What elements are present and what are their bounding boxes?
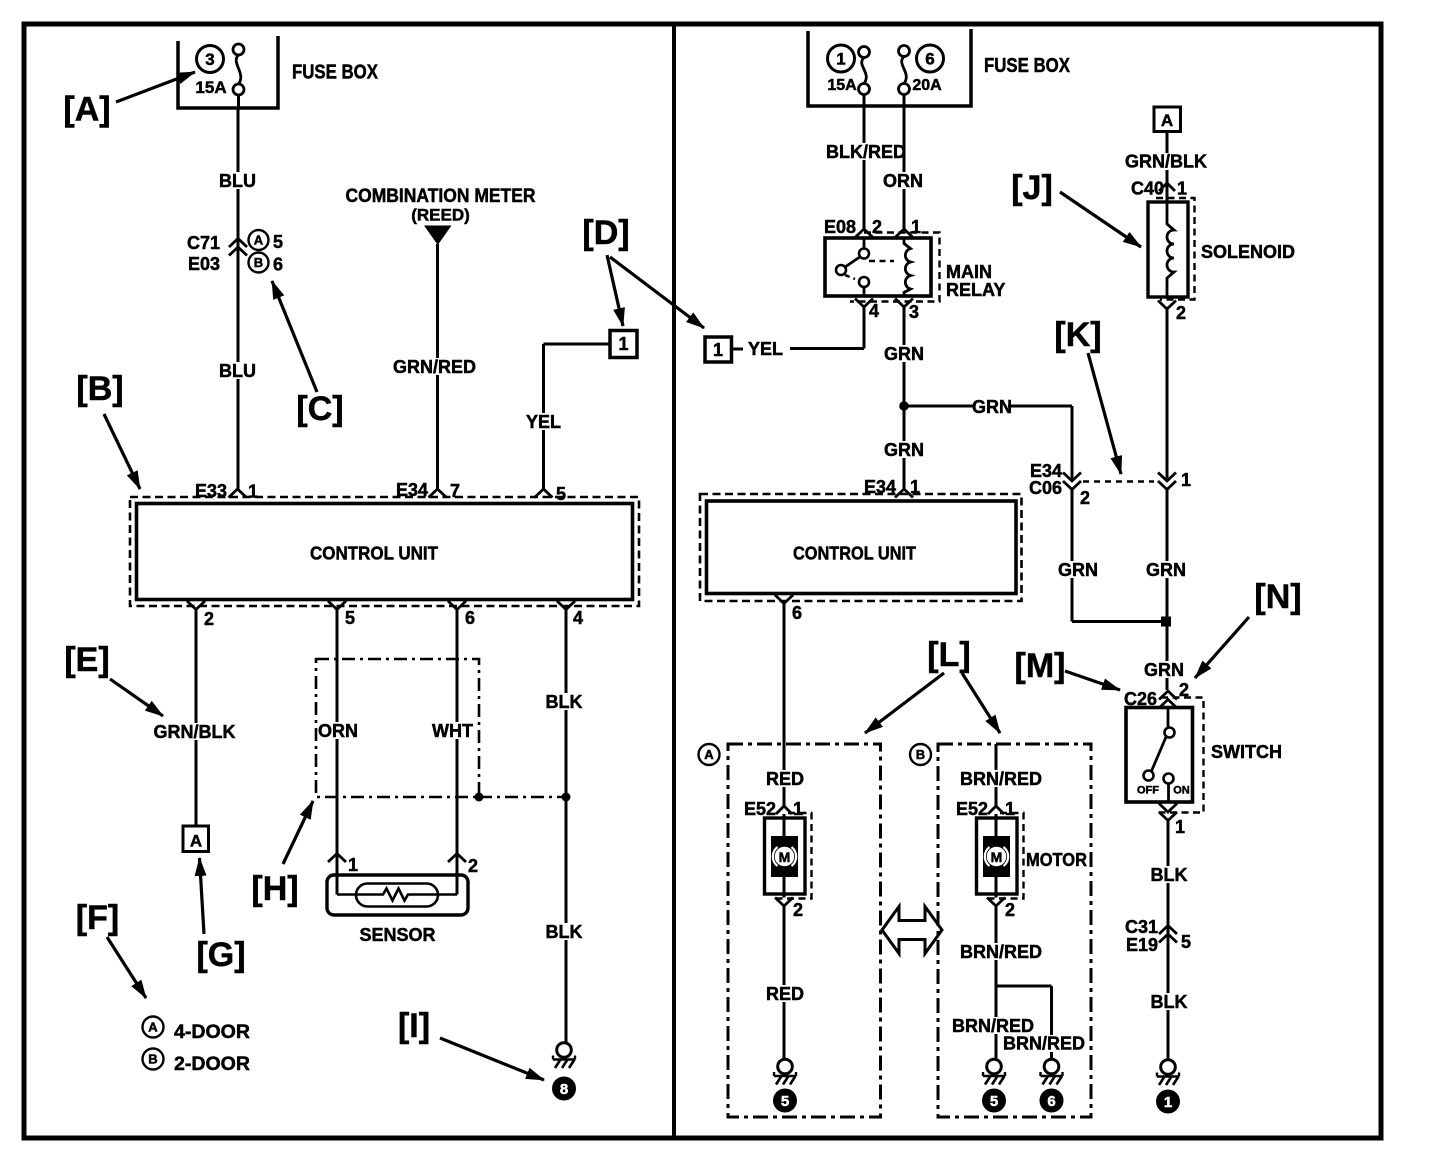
fuse box (left) [178, 36, 278, 108]
wire BRN/RED motor B down [995, 906, 998, 1059]
wire label GRN/BLK [157, 723, 232, 740]
svg-text:1: 1 [911, 217, 921, 237]
shield dash-dot box [H] [316, 659, 479, 797]
svg-text:C31: C31 [1125, 917, 1158, 937]
svg-text:[E]: [E] [64, 641, 109, 679]
svg-text:BLK/RED: BLK/RED [826, 142, 906, 162]
svg-text:1: 1 [1164, 1094, 1172, 1111]
wire label GRN on branch [975, 398, 1008, 415]
variant box A dash-dot [728, 744, 881, 1117]
wire GRN relay pin3 down [903, 307, 906, 489]
arrow [J] to solenoid [1060, 192, 1141, 247]
wire branch down to connector C06 [1071, 406, 1074, 481]
motor A pin E52-1 [776, 806, 792, 814]
wire YEL node1 to control unit pin 5 [544, 343, 611, 346]
wire YEL node1 to relay pin4 [732, 348, 744, 351]
arrow [G] to node A [200, 858, 205, 934]
svg-text:[J]: [J] [1011, 169, 1053, 207]
svg-text:1: 1 [1177, 179, 1187, 199]
panel divider [672, 24, 676, 1138]
pin 6 terminal (right CU) [775, 595, 793, 604]
svg-text:6: 6 [925, 50, 934, 69]
svg-text:[C]: [C] [296, 390, 343, 428]
wire label ORN [886, 172, 919, 189]
svg-text:M: M [991, 849, 1003, 865]
svg-text:RELAY: RELAY [946, 280, 1005, 300]
wire relay pin4 stub [863, 307, 866, 349]
combination meter triangle symbol [424, 226, 452, 246]
svg-text:1: 1 [1175, 817, 1185, 837]
svg-text:BLK: BLK [1151, 992, 1188, 1012]
svg-text:COMBINATION METER: COMBINATION METER [346, 186, 536, 207]
wire GRN/RED meter to control unit pin E34-7 [436, 244, 439, 489]
solenoid coil [1167, 202, 1174, 297]
pin 5 terminal (bottom) [328, 601, 346, 610]
wire BLU fuse3 to control unit pin E33-1 [237, 95, 240, 110]
svg-text:RED: RED [766, 769, 804, 789]
motor B symbol [983, 836, 1010, 877]
wire label RED lower [768, 985, 801, 1002]
svg-text:YEL: YEL [526, 412, 561, 432]
svg-text:[F]: [F] [76, 899, 119, 937]
svg-text:[A]: [A] [63, 91, 110, 129]
control unit (right) solid box [707, 501, 1017, 594]
wire label GRN (solenoid branch) [1149, 561, 1182, 578]
svg-text:1: 1 [1005, 799, 1015, 819]
motor A symbol [771, 836, 798, 877]
svg-text:A: A [148, 1020, 158, 1035]
pin 5 terminal (top) [535, 489, 553, 498]
wire label WHT [436, 722, 469, 739]
svg-text:SOLENOID: SOLENOID [1201, 242, 1295, 262]
svg-text:WHT: WHT [432, 721, 473, 741]
fuse box (right) [808, 29, 971, 106]
fuse 3 circled number [197, 46, 224, 73]
pin 4 terminal (bottom) [557, 601, 575, 610]
wire label BRN/RED middle [963, 943, 1038, 960]
svg-text:BRN/RED: BRN/RED [1003, 1034, 1085, 1054]
circled A with pin 5 (C71 side) [249, 230, 269, 250]
svg-text:5: 5 [273, 232, 283, 252]
svg-text:1: 1 [836, 50, 845, 69]
wire label GRN (C06 branch) [1061, 561, 1094, 578]
svg-text:GRN/RED: GRN/RED [393, 357, 476, 377]
svg-text:E52: E52 [956, 799, 988, 819]
arrow [B] to control unit corner [104, 414, 140, 489]
svg-text:5: 5 [1181, 932, 1191, 952]
svg-text:1: 1 [248, 482, 258, 502]
dash-dot link to BLK wire [479, 796, 566, 799]
svg-text:ORN: ORN [318, 721, 358, 741]
svg-text:GRN: GRN [1146, 560, 1186, 580]
svg-text:E19: E19 [1126, 935, 1158, 955]
svg-text:B: B [916, 747, 925, 762]
svg-text:1: 1 [713, 340, 723, 360]
arrow [E] to GRN/BLK [110, 679, 163, 716]
svg-text:BLK: BLK [1151, 865, 1188, 885]
svg-text:GRN: GRN [884, 344, 924, 364]
svg-text:MAIN: MAIN [946, 262, 992, 282]
svg-text:C40: C40 [1131, 179, 1164, 199]
svg-text:[H]: [H] [251, 870, 298, 908]
wire BLK/RED fuse1 to relay pin2 [863, 95, 866, 230]
motor B pin E52-1 [988, 806, 1004, 814]
svg-text:GRN: GRN [972, 397, 1012, 417]
arrow [D] to left node 1 [607, 255, 623, 326]
svg-text:GRN: GRN [1058, 560, 1098, 580]
pin E34-7 terminal [429, 489, 447, 498]
connector 1 on solenoid wire [1158, 481, 1176, 490]
arrow [I] to ground 8 [440, 1038, 544, 1080]
switch box [1126, 708, 1193, 803]
svg-text:5: 5 [990, 1093, 998, 1110]
wire BLK switch to ground 1 [1167, 821, 1170, 1061]
arrow [N] to C26 pin 2 [1195, 617, 1249, 678]
wire GRN/BLK pin2 to node A [195, 610, 198, 827]
junction dot GRN branch [899, 401, 909, 411]
svg-text:2: 2 [1176, 303, 1186, 323]
svg-text:1: 1 [1181, 470, 1191, 490]
svg-text:4: 4 [869, 301, 879, 321]
svg-text:[K]: [K] [1054, 316, 1101, 354]
arrow [H] to box corner [283, 801, 313, 864]
pin 2 terminal (bottom) [187, 601, 205, 610]
ground symbol 1 [1161, 1060, 1176, 1075]
branch wire to ground 6 [996, 985, 1052, 988]
svg-text:[M]: [M] [1015, 647, 1066, 685]
wire label YEL [527, 413, 560, 430]
junction dot at solenoid wire [1161, 617, 1171, 627]
elbow to solenoid wire [1072, 620, 1166, 623]
svg-text:2-DOOR: 2-DOOR [174, 1054, 250, 1075]
svg-text:[I]: [I] [398, 1007, 430, 1045]
wire label BLK upper [547, 693, 580, 710]
legend circled A = 4-DOOR [143, 1017, 164, 1038]
connector C71/E03 on BLU wire [229, 239, 247, 248]
svg-text:BRN/RED: BRN/RED [960, 769, 1042, 789]
svg-text:CONTROL UNIT: CONTROL UNIT [310, 543, 439, 564]
svg-text:A: A [254, 233, 264, 248]
svg-text:BLU: BLU [219, 171, 256, 191]
node box 1 (right panel) [705, 337, 732, 362]
svg-text:FUSE BOX: FUSE BOX [292, 62, 379, 84]
circled A (variant) [699, 744, 720, 765]
svg-text:SWITCH: SWITCH [1211, 742, 1282, 762]
wire label BRN/RED top [963, 770, 1038, 787]
fuse 1 circled number [828, 45, 855, 72]
svg-text:6: 6 [1047, 1093, 1055, 1110]
arrow [L] to box A [865, 673, 944, 733]
svg-text:6: 6 [465, 608, 475, 628]
fuse 3 15A symbol [233, 44, 244, 55]
wire label GRN below relay [887, 345, 920, 362]
wire label GRN above E34-1 [887, 441, 920, 458]
svg-text:BLK: BLK [546, 922, 583, 942]
wire ORN fuse6 to relay pin1 [903, 95, 906, 230]
pin E33-1 terminal [229, 489, 247, 498]
arrow [F] to legend [107, 937, 146, 998]
fuse 6 circled number [917, 45, 944, 72]
svg-text:E52: E52 [744, 799, 776, 819]
arrow [K] to connector link [1088, 353, 1121, 474]
svg-text:E03: E03 [188, 254, 220, 274]
svg-text:YEL: YEL [748, 339, 783, 359]
control unit (right) dashed outline [700, 494, 1022, 601]
motor A box [765, 818, 806, 894]
wire WHT pin6 to sensor pin2 [456, 610, 459, 863]
arrow [M] to C26 [1065, 671, 1120, 690]
relay coil [904, 238, 911, 296]
wire label BRN/RED left [955, 1017, 1030, 1034]
motor A wire through [783, 814, 786, 838]
wire BLK pin4 to ground 8 [565, 610, 568, 1043]
motor B box [977, 818, 1018, 894]
motor B wire through [995, 814, 998, 838]
svg-text:1: 1 [793, 799, 803, 819]
svg-text:[B]: [B] [76, 370, 123, 408]
wire label RED upper [768, 770, 801, 787]
svg-text:4-DOOR: 4-DOOR [174, 1022, 250, 1043]
svg-text:GRN: GRN [884, 440, 924, 460]
switch pin 1 connector [1159, 812, 1177, 821]
svg-text:5: 5 [345, 608, 355, 628]
node box 1 (left panel) [610, 331, 637, 358]
svg-text:4: 4 [573, 608, 583, 628]
svg-text:3: 3 [205, 50, 214, 69]
wire GRN solenoid to connector 1 [1166, 309, 1169, 481]
svg-text:BLU: BLU [219, 361, 256, 381]
relay mech link dashes [869, 260, 894, 263]
svg-text:6: 6 [273, 255, 283, 275]
wire label BLK/RED [828, 143, 903, 160]
svg-text:M: M [779, 849, 791, 865]
svg-text:15A: 15A [195, 78, 226, 97]
wire label BLK lower [547, 923, 580, 940]
arrow [L] to box B [962, 673, 1000, 733]
svg-text:5: 5 [556, 484, 566, 504]
svg-text:A: A [1161, 111, 1173, 130]
fuse 6 symbol [899, 46, 910, 57]
svg-text:2: 2 [1080, 488, 1090, 508]
svg-text:[N]: [N] [1254, 578, 1301, 616]
svg-text:2: 2 [872, 217, 882, 237]
svg-text:8: 8 [560, 1081, 568, 1098]
relay switch arm [863, 238, 866, 249]
svg-text:(REED): (REED) [411, 206, 470, 225]
svg-text:E34: E34 [396, 480, 428, 500]
wire RED control unit to motor A [783, 604, 786, 807]
svg-text:BRN/RED: BRN/RED [960, 942, 1042, 962]
svg-text:C71: C71 [187, 233, 220, 253]
svg-text:GRN: GRN [1144, 660, 1184, 680]
svg-text:1: 1 [348, 855, 358, 875]
circled B (variant) [910, 744, 931, 765]
wire label ORN [321, 722, 354, 739]
solenoid dashed outline [1156, 198, 1195, 300]
connector C31/E19 5 [1159, 926, 1177, 935]
wire label BRN/RED right [1006, 1035, 1081, 1052]
svg-text:E08: E08 [824, 217, 856, 237]
arrow [A] to fuse 3 [116, 72, 195, 102]
wire label GRN/BLK (right) [1128, 153, 1203, 170]
svg-text:A: A [704, 747, 714, 762]
svg-text:2: 2 [468, 856, 478, 876]
connector C26-2 [1159, 691, 1177, 700]
svg-text:FUSE BOX: FUSE BOX [984, 55, 1071, 77]
wire label BLU lower [221, 362, 254, 379]
svg-text:3: 3 [909, 302, 919, 322]
svg-text:GRN/BLK: GRN/BLK [1125, 152, 1207, 172]
control unit (left) dashed outline [130, 497, 639, 606]
motor A dashed outline [775, 813, 812, 899]
connector E34/C06 2 [1063, 481, 1081, 490]
svg-text:CONTROL UNIT: CONTROL UNIT [793, 544, 916, 564]
svg-text:7: 7 [450, 481, 460, 501]
svg-text:2: 2 [204, 609, 214, 629]
svg-text:OFF: OFF [1137, 785, 1159, 797]
svg-text:6: 6 [792, 603, 802, 623]
svg-text:2: 2 [793, 900, 803, 920]
wire GRN branch to C06 [904, 405, 1072, 408]
fuse 1 15A symbol [859, 47, 870, 58]
legend circled B = 2-DOOR [143, 1049, 164, 1070]
wire label GRN/RED [397, 358, 472, 375]
pin E34-1 terminal (right CU) [895, 489, 913, 498]
sensor pin 1 terminal [328, 854, 346, 863]
svg-text:[L]: [L] [927, 636, 970, 674]
connector C40-1 [1159, 183, 1175, 191]
relay pin 1 terminal [895, 229, 913, 238]
dashed connector link line [1083, 480, 1154, 482]
svg-text:BLK: BLK [546, 692, 583, 712]
svg-text:[D]: [D] [582, 214, 629, 252]
svg-text:20A: 20A [912, 77, 942, 94]
svg-text:SENSOR: SENSOR [359, 925, 435, 945]
svg-text:A: A [190, 832, 202, 851]
sensor element capsule with resistor [356, 884, 438, 907]
svg-text:C06: C06 [1029, 478, 1062, 498]
switch dashed outline [1155, 698, 1204, 813]
svg-text:5: 5 [781, 1093, 789, 1110]
svg-text:ON: ON [1173, 785, 1190, 797]
sensor pin 2 terminal [448, 854, 466, 863]
double-change arrow between variants [882, 907, 942, 954]
pin 6 terminal (bottom) [448, 601, 466, 610]
wire GRN connector to switch [1166, 490, 1169, 691]
relay pin 3 terminal [895, 299, 913, 308]
ground symbol 6 (box B) [1044, 1059, 1059, 1074]
svg-text:B: B [254, 255, 263, 270]
motor B pin 2 [987, 898, 1005, 907]
solenoid box [1148, 202, 1188, 297]
relay contact circles [859, 249, 869, 259]
control unit (left) solid box [137, 504, 633, 600]
wire label BLU upper [221, 172, 254, 189]
wire ORN pin5 to sensor pin1 [336, 610, 339, 863]
wire GRN/BLK node A to solenoid [1166, 132, 1169, 203]
main relay box [825, 238, 931, 296]
node box A (right panel) [1154, 107, 1181, 132]
svg-text:B: B [148, 1052, 157, 1067]
arrow [C] to circled B [272, 281, 317, 392]
sensor wires into body [336, 862, 339, 895]
svg-text:ORN: ORN [883, 171, 923, 191]
ground symbol 8 [557, 1043, 572, 1058]
switch internals [1167, 708, 1170, 728]
svg-text:GRN/BLK: GRN/BLK [154, 722, 236, 742]
relay pin 2 terminal [855, 229, 873, 238]
svg-text:RED: RED [766, 984, 804, 1004]
motor A pin 2 [775, 898, 793, 907]
motor B dashed outline [987, 813, 1024, 899]
svg-text:[G]: [G] [196, 936, 245, 974]
arrow [D] to right node 1 [610, 257, 704, 328]
svg-text:1: 1 [618, 334, 628, 354]
solenoid pin 2 terminal [1158, 301, 1176, 310]
svg-text:E33: E33 [195, 481, 227, 501]
wire BRN/RED into motor B [995, 744, 998, 806]
svg-text:MOTOR: MOTOR [1026, 850, 1087, 870]
circled B with pin 6 (E03 side) [249, 253, 269, 273]
ground symbol 5 (box B) [987, 1059, 1002, 1074]
wire label BLK (upper right) [1152, 866, 1185, 883]
wire label GRN above C26 [1147, 661, 1180, 678]
svg-text:15A: 15A [827, 77, 857, 94]
wire GRN C06 down to elbow [1071, 490, 1074, 622]
variant box B dash-dot [938, 744, 1091, 1117]
wire RED motor A to ground [783, 906, 786, 1059]
svg-text:2: 2 [1005, 900, 1015, 920]
relay pin 4 terminal [855, 299, 873, 308]
main relay dashed outline [850, 233, 940, 302]
wire label BLK (lower right) [1152, 993, 1185, 1010]
node box A (left) [183, 826, 209, 852]
sensor box [327, 875, 468, 915]
ground symbol 5 (box A) [778, 1059, 793, 1074]
